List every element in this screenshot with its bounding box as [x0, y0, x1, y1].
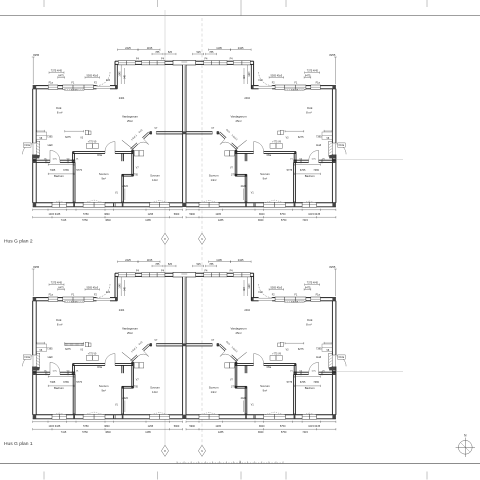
svg-text:1015 6435: 1015 6435: [48, 425, 60, 428]
plan1 left unit hall south wall with bath door: [33, 371, 50, 373]
plan2 right unit entry label F10a: [338, 143, 346, 147]
grid line B vertical dashed: [201, 18, 203, 445]
plan2 left unit top dim row 2: [152, 53, 163, 55]
svg-text:D9a: D9a: [97, 154, 102, 157]
plan2 left unit kitchen counter: [36, 132, 46, 139]
svg-text:F20: F20: [259, 291, 264, 294]
svg-text:7395: 7395: [316, 135, 322, 138]
plan2 right unit corner blobs: [332, 86, 336, 89]
svg-text:525: 525: [197, 51, 202, 54]
plan2 left unit entry label F10a: [23, 143, 31, 147]
plan1 left unit window sill hatch below F1: [65, 301, 85, 303]
svg-text:5005 45x5: 5005 45x5: [86, 286, 98, 289]
svg-text:1645: 1645: [119, 283, 121, 289]
plan1 party wall: [183, 277, 186, 419]
plan2 left unit bathroom east wall: [72, 162, 74, 202]
plan2 left unit exterior side wall: [32, 89, 34, 143]
plan1 left unit bathroom east wall: [72, 374, 74, 414]
plan1 right unit diagonal wall with door: [219, 345, 225, 351]
svg-text:6475: 6475: [305, 74, 311, 77]
svg-text:Hus G plan 1: Hus G plan 1: [4, 441, 33, 447]
svg-text:7395: 7395: [47, 347, 53, 350]
svg-text:6475: 6475: [58, 74, 64, 77]
svg-text:F1a: F1a: [316, 293, 321, 296]
svg-text:7375 4/45: 7375 4/45: [307, 282, 319, 285]
svg-text:1645: 1645: [247, 71, 249, 77]
plan1 right unit hall south wall with bath door: [319, 371, 336, 373]
svg-text:Sovrum: Sovrum: [209, 174, 219, 178]
svg-text:6275: 6275: [65, 348, 71, 351]
plan2 left unit hall-bed jog wall: [72, 152, 74, 161]
svg-text:9m²: 9m²: [101, 388, 106, 392]
svg-text:5750: 5750: [280, 425, 286, 428]
plan2 right unit bedroom1 north wall with door: [264, 151, 296, 153]
plan1 left unit bedroom1 north wall with door: [73, 363, 105, 365]
svg-text:3840: 3840: [105, 219, 111, 222]
svg-text:7365: 7365: [313, 381, 319, 384]
plan1 right unit step wall corner blob: [251, 298, 253, 301]
svg-text:14m²: 14m²: [152, 178, 158, 182]
svg-text:Sovrum: Sovrum: [260, 172, 270, 176]
plan1 right unit window F4 left: [233, 273, 250, 277]
svg-text:3840: 3840: [259, 425, 265, 428]
plan1 left unit hall-bed jog wall: [72, 364, 74, 373]
plan1 right unit living room wall: [217, 343, 219, 345]
svg-text:+775 V9: +775 V9: [272, 142, 281, 144]
svg-text:5900: 5900: [174, 213, 180, 216]
plan2 left unit bottom exterior wall: [33, 202, 52, 204]
svg-text:2425: 2425: [125, 46, 131, 50]
plan2 right unit bottom window: [302, 202, 317, 207]
svg-text:7415: 7415: [61, 431, 67, 434]
svg-text:Vardagsrum: Vardagsrum: [231, 115, 248, 119]
plan1 centre chimney box: [173, 272, 196, 277]
plan2 left unit window F1a: [48, 85, 58, 89]
plan2 left unit top dim row 1: [118, 49, 139, 51]
svg-text:1295: 1295: [215, 425, 221, 428]
plan 1 drawing: [23, 258, 404, 434]
svg-text:8255: 8255: [33, 53, 39, 57]
svg-text:5750: 5750: [82, 431, 88, 434]
plan1 left unit closet bottom wall: [122, 385, 134, 387]
plan2 left unit hall closet hatched: [36, 141, 40, 156]
svg-text:7x8 9/9: 7x8 9/9: [291, 302, 299, 304]
plan2 left unit closet boxes: [134, 151, 139, 156]
svg-text:7375 4/45: 7375 4/45: [307, 70, 319, 73]
plan2 left unit wardrobe boxes living side: [86, 144, 92, 149]
plan2 right unit step wall to centre section: [253, 61, 255, 85]
svg-text:Sovrum: Sovrum: [260, 384, 270, 388]
plan2 left unit diagonal wall with door: [144, 133, 150, 139]
svg-text:1015 6435: 1015 6435: [48, 213, 60, 216]
svg-text:1645: 1645: [119, 71, 121, 77]
svg-text:1015 6435: 1015 6435: [308, 213, 320, 216]
plan2 right unit wardrobe boxes living side: [276, 144, 282, 149]
plan1 right unit wing top exterior wall: [320, 297, 336, 299]
plan1 right unit bedroom1 north wall with door: [264, 363, 296, 365]
svg-text:785: 785: [209, 263, 214, 266]
svg-text:6475: 6475: [58, 286, 64, 289]
plan2 left unit corner blobs: [33, 86, 37, 89]
svg-text:25m²: 25m²: [236, 119, 242, 123]
svg-text:Hall: Hall: [48, 143, 53, 147]
svg-text:2420: 2420: [241, 185, 247, 188]
svg-text:7365: 7365: [50, 169, 56, 172]
plan1 right unit diagonal door open leaf: [235, 352, 246, 361]
plan2 left unit vent ticks hall wall: [45, 159, 47, 163]
plan2 left unit closet east wall: [131, 150, 133, 176]
svg-text:Vardagsrum: Vardagsrum: [231, 327, 248, 331]
plan2 right unit living room wall: [217, 131, 219, 133]
plan2 right unit bottom dim row B: [186, 216, 336, 218]
north symbol: [456, 438, 475, 457]
svg-text:F1a: F1a: [49, 81, 54, 84]
plan2 left unit step dims rotated: [120, 65, 122, 84]
plan1 left unit diagonal door open leaf: [122, 352, 133, 361]
svg-text:8255: 8255: [329, 265, 335, 269]
plan1 right unit bottom window: [199, 414, 219, 419]
plan2 left unit window F4 left: [118, 61, 135, 65]
plan1 right unit entry door swing arc: [336, 356, 347, 367]
svg-text:7x8 9/9: 7x8 9/9: [71, 302, 79, 304]
plan1 right unit entry label F10a: [338, 355, 346, 359]
svg-text:Hus G plan 2: Hus G plan 2: [4, 239, 33, 245]
plan2 left unit bath door swing: [49, 150, 51, 160]
plan1 left unit hall closet hatched: [36, 353, 40, 368]
svg-text:1285: 1285: [145, 431, 151, 434]
plan2 left unit hall south wall with bath door: [33, 159, 50, 161]
svg-text:525: 525: [168, 263, 173, 266]
plan1 left unit bath door swing: [49, 362, 51, 372]
plan2 right unit centre top exterior wall: [250, 60, 253, 62]
svg-text:6765: 6765: [300, 169, 306, 172]
svg-text:25m²: 25m²: [127, 119, 133, 123]
plan1 left unit corner blobs: [33, 298, 37, 301]
svg-text:Kök: Kök: [307, 106, 313, 110]
plan1 right unit bottom window: [264, 414, 286, 419]
plan1 left unit bottom window: [150, 414, 170, 419]
plan2 right unit diagonal door open leaf: [235, 140, 246, 149]
plan2 right unit top dim row 2: [206, 53, 217, 55]
svg-text:6275: 6275: [65, 136, 71, 139]
svg-text:F1a: F1a: [316, 81, 321, 84]
svg-text:1295: 1295: [148, 425, 154, 428]
svg-text:785: 785: [155, 51, 160, 54]
svg-text:3840: 3840: [258, 219, 264, 222]
plan1 left unit step wall corner blob: [115, 298, 117, 301]
svg-text:8 m²: 8 m²: [57, 323, 63, 327]
svg-text:F10a: F10a: [339, 356, 345, 359]
plan1 left unit window F1 F2 band: [63, 297, 94, 301]
svg-text:8255: 8255: [329, 53, 335, 57]
svg-text:Badrum: Badrum: [54, 386, 64, 390]
plan1 right unit bedroom divider wall: [246, 365, 248, 373]
svg-text:Sovrum: Sovrum: [150, 174, 160, 178]
plan2 right unit bathroom labels: [295, 164, 321, 166]
plan1 left unit wing top exterior wall: [33, 297, 49, 299]
svg-text:2404: 2404: [119, 97, 125, 100]
plan2 right unit bathroom east wall: [294, 162, 296, 202]
plan2 party wall: [183, 65, 186, 207]
grid bubble B plan1: [198, 445, 205, 456]
svg-text:7365: 7365: [50, 381, 56, 384]
plan1 right unit hall closet hatched: [329, 353, 333, 368]
svg-text:+775 V9: +775 V9: [88, 354, 97, 356]
plan1 left unit window F4 left: [118, 273, 135, 277]
plan1 left unit exterior side wall: [32, 301, 34, 355]
plan2 left unit window F1 F2 band: [63, 85, 94, 89]
plan2 right unit step wall corner blob: [251, 86, 253, 89]
plan1 right unit hall-bed jog wall: [295, 364, 297, 373]
svg-text:2420: 2420: [122, 397, 128, 400]
svg-text:8 m²: 8 m²: [57, 111, 63, 115]
plan2 right unit window F1a: [311, 85, 321, 89]
plan2 right unit top dim row 1: [231, 49, 252, 51]
plan1 right unit vent ticks hall wall: [322, 371, 324, 375]
svg-text:3840: 3840: [259, 213, 265, 216]
svg-text:Badrum: Badrum: [54, 174, 64, 178]
svg-text:1195: 1195: [147, 46, 153, 50]
svg-text:F1a: F1a: [49, 293, 54, 296]
plan2 left unit living room wall: [150, 131, 152, 133]
svg-text:25m²: 25m²: [236, 331, 242, 335]
svg-text:1795: 1795: [231, 386, 237, 389]
svg-text:9m²: 9m²: [263, 176, 268, 180]
scale bar: [177, 462, 283, 464]
svg-text:5750: 5750: [280, 213, 286, 216]
plan1 left unit diagonal wall with door: [144, 345, 150, 351]
plan2 left unit dim 6275: [65, 130, 84, 132]
plan 2 drawing: [23, 46, 404, 222]
plan2 right unit closet east wall: [236, 150, 238, 176]
svg-text:6275: 6275: [298, 348, 304, 351]
svg-text:Hall: Hall: [316, 143, 321, 147]
svg-text:F10a: F10a: [24, 144, 30, 147]
svg-text:1195: 1195: [147, 258, 153, 262]
plan1 reference line right side: [337, 370, 403, 372]
svg-text:1295: 1295: [215, 213, 221, 216]
svg-text:5750: 5750: [281, 219, 287, 222]
svg-text:5775: 5775: [287, 381, 293, 384]
svg-text:1295: 1295: [148, 213, 154, 216]
plan1 left unit bedroom divider wall: [121, 365, 123, 373]
fold marks top: [43, 0, 45, 7]
plan2 right unit window F4 left: [233, 61, 250, 65]
plan1 right unit kitchen counter: [322, 344, 332, 351]
plan2 left unit bottom dim row B: [33, 216, 183, 218]
plan2 left unit wing top exterior wall: [33, 85, 49, 87]
plan1 right unit exterior side wall: [335, 301, 337, 355]
plan1 right unit bedroom1 door swing: [253, 354, 255, 364]
plan1 left unit step dims rotated: [120, 277, 122, 296]
svg-text:2425: 2425: [238, 258, 244, 262]
plan2 right unit entry door swing arc: [336, 144, 347, 155]
svg-text:F10a: F10a: [24, 356, 30, 359]
svg-text:1795: 1795: [133, 174, 139, 177]
svg-text:Hall: Hall: [316, 355, 321, 359]
plan1 right unit top dim row 1: [231, 261, 252, 263]
svg-text:1285: 1285: [218, 219, 224, 222]
plan2 right unit vent ticks hall wall: [322, 159, 324, 163]
svg-text:6765: 6765: [63, 169, 69, 172]
svg-text:14m²: 14m²: [152, 390, 158, 394]
svg-text:8255: 8255: [33, 265, 39, 269]
plan1 right unit window sill hatch below F1: [285, 301, 305, 303]
svg-text:Kök: Kök: [307, 318, 313, 322]
plan2 right unit bedroom divider wall: [246, 153, 248, 161]
svg-text:Vardagsrum: Vardagsrum: [122, 327, 139, 331]
svg-text:2404: 2404: [119, 309, 125, 312]
plan2 right unit window sill hatch below F1: [285, 89, 305, 91]
plan1 right unit top dim row 2: [206, 265, 217, 267]
svg-text:6475: 6475: [305, 286, 311, 289]
svg-text:9m²: 9m²: [263, 388, 268, 392]
plan1 left unit bottom exterior wall: [33, 414, 52, 416]
svg-text:Badrum: Badrum: [305, 386, 315, 390]
svg-text:525: 525: [197, 263, 202, 266]
plan2 right unit closet boxes: [230, 151, 235, 156]
svg-text:6765: 6765: [300, 381, 306, 384]
plan1 left unit bottom window: [52, 414, 67, 419]
svg-text:5775: 5775: [76, 381, 82, 384]
plan1 left unit living room wall: [150, 343, 152, 345]
plan2 right unit bottom exterior wall: [317, 202, 336, 204]
svg-text:1285: 1285: [218, 431, 224, 434]
svg-text:1195: 1195: [216, 46, 222, 50]
plan1 left unit bottom window: [83, 414, 105, 419]
plan1 right unit window F1 F2 band: [275, 297, 306, 301]
svg-text:1645: 1645: [247, 283, 249, 289]
plan2 right unit bath door swing: [318, 150, 320, 160]
svg-text:9m²: 9m²: [101, 176, 106, 180]
plan2 left unit bathroom labels: [48, 164, 74, 166]
plan1 left unit top dim row 1: [118, 261, 139, 263]
svg-text:14m²: 14m²: [211, 178, 217, 182]
plan1 right unit step dims rotated: [246, 277, 248, 296]
plan2 right unit hall south wall with bath door: [319, 159, 336, 161]
plan2 left unit vent tick bottom wall: [113, 203, 115, 206]
plan1 left unit dim 6275: [65, 342, 84, 344]
plan1 right unit bath door swing: [318, 362, 320, 372]
plan1 left unit top dim row 2: [152, 265, 163, 267]
plan1 party wall junction blobs: [182, 343, 186, 346]
plan1 right unit corner blobs: [332, 298, 336, 301]
svg-text:F20: F20: [106, 291, 111, 294]
plan2 left unit entry door swing arc: [23, 144, 34, 155]
plan2 right unit window F1 F2 band: [275, 85, 306, 89]
svg-text:7415: 7415: [61, 219, 67, 222]
plan1 right unit dim 6275: [285, 342, 304, 344]
svg-text:5900: 5900: [174, 425, 180, 428]
svg-text:5750: 5750: [83, 213, 89, 216]
svg-text:3840: 3840: [258, 431, 264, 434]
plan1 left unit bedroom1 door swing: [114, 354, 116, 364]
plan1 left unit kitchen counter: [36, 344, 46, 351]
plan1 left unit wardrobe boxes living side: [86, 356, 92, 361]
svg-text:+775 V9: +775 V9: [272, 354, 281, 356]
grid bubble B plan2: [198, 233, 205, 244]
plan1 left unit centre top exterior wall: [115, 272, 118, 274]
svg-text:7395: 7395: [316, 347, 322, 350]
plan1 left unit door F20 opening with dashed swing: [97, 297, 111, 299]
plan1 left unit bathroom labels: [48, 376, 74, 378]
plan2 left unit centre top exterior wall: [115, 60, 118, 62]
plan1 right unit door F20 opening with dashed swing: [259, 297, 273, 299]
plan1 hatched bar: [65, 343, 84, 345]
svg-text:3840: 3840: [104, 213, 110, 216]
plan2 right unit wing top exterior wall: [320, 85, 336, 87]
svg-text:5900: 5900: [189, 213, 195, 216]
svg-text:525: 525: [168, 51, 173, 54]
plan1 right unit bathroom east wall: [294, 374, 296, 414]
plan2 right unit step dims rotated: [246, 65, 248, 84]
plan1 right unit bottom dim row B: [186, 428, 336, 430]
svg-text:785: 785: [155, 263, 160, 266]
svg-text:2404: 2404: [244, 97, 250, 100]
svg-text:5900: 5900: [189, 425, 195, 428]
plan2 party wall junction blobs: [182, 131, 186, 134]
svg-text:2425: 2425: [238, 46, 244, 50]
svg-text:7375 4/45: 7375 4/45: [51, 70, 63, 73]
svg-text:Sovrum: Sovrum: [99, 172, 109, 176]
plan2 centre chimney box: [173, 60, 196, 65]
plan1 right unit bathroom labels: [295, 376, 321, 378]
svg-text:1195: 1195: [216, 258, 222, 262]
svg-text:7395: 7395: [47, 135, 53, 138]
svg-text:8 m²: 8 m²: [306, 323, 312, 327]
plan1 left unit closet east wall: [131, 362, 133, 388]
svg-text:6275: 6275: [298, 136, 304, 139]
svg-text:6765: 6765: [63, 381, 69, 384]
plan1 right unit window F4 right: [204, 273, 227, 277]
svg-text:Hall: Hall: [48, 355, 53, 359]
plan2 left unit bottom window: [52, 202, 67, 207]
svg-text:5750: 5750: [281, 431, 287, 434]
svg-text:D9a: D9a: [97, 366, 102, 369]
plan1 left unit vent ticks hall wall: [45, 371, 47, 375]
plan1 left unit entry label F10a: [23, 355, 31, 359]
plan1 left unit window F4 right: [142, 273, 165, 277]
plan2 left unit closet bottom wall: [122, 173, 134, 175]
plan1 right unit bottom exterior wall: [317, 414, 336, 416]
plan2 right unit dim 6275: [285, 130, 304, 132]
plan2 reference line right side: [337, 158, 403, 160]
plan2 right unit closet bottom wall: [235, 173, 247, 175]
plan2 left unit window F4 right: [142, 61, 165, 65]
sheet bottom border line: [0, 463, 480, 465]
svg-text:2420: 2420: [122, 185, 128, 188]
plan2 left unit step wall corner blob: [115, 86, 117, 89]
fold marks bottom: [43, 472, 45, 480]
svg-text:5775: 5775: [287, 169, 293, 172]
svg-text:Kök: Kök: [56, 318, 62, 322]
svg-text:8 m²: 8 m²: [306, 111, 312, 115]
svg-text:7x8 9/9: 7x8 9/9: [291, 90, 299, 92]
plan2 left unit window sill hatch below F1: [65, 89, 85, 91]
svg-text:7365: 7365: [313, 169, 319, 172]
plan1 right unit window F1a: [311, 297, 321, 301]
svg-text:5005 45x5: 5005 45x5: [86, 74, 98, 77]
plan2 left unit bedroom1 north wall with door: [73, 151, 105, 153]
grid bubble A plan2: [161, 233, 168, 244]
svg-text:2420: 2420: [241, 397, 247, 400]
svg-text:F20: F20: [259, 79, 264, 82]
plan1 right unit step wall to centre section: [253, 273, 255, 297]
plan2 right unit exterior side wall: [335, 89, 337, 143]
plan1 right unit bottom window: [302, 414, 317, 419]
plan1 right unit closet boxes: [230, 363, 235, 368]
plan2 right unit door F20 opening with dashed swing: [259, 85, 273, 87]
